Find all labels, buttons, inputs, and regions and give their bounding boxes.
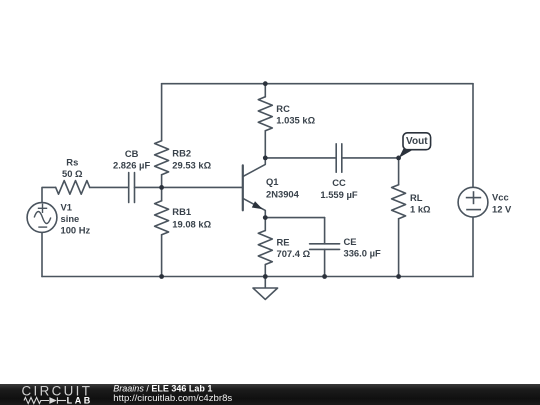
svg-text:2N3904: 2N3904: [266, 188, 300, 199]
svg-text:CB: CB: [125, 148, 139, 159]
svg-text:707.4 Ω: 707.4 Ω: [277, 248, 311, 259]
svg-text:19.08 kΩ: 19.08 kΩ: [172, 218, 211, 229]
svg-text:336.0 µF: 336.0 µF: [344, 248, 381, 259]
svg-text:50 Ω: 50 Ω: [62, 168, 83, 179]
svg-text:2.826 µF: 2.826 µF: [113, 159, 150, 170]
svg-text:1.035 kΩ: 1.035 kΩ: [276, 115, 315, 126]
svg-text:1.559 µF: 1.559 µF: [320, 189, 357, 200]
svg-text:http://circuitlab.com/c4zbr8s: http://circuitlab.com/c4zbr8s: [113, 393, 232, 404]
svg-text:RE: RE: [277, 237, 290, 248]
svg-text:Vout: Vout: [406, 136, 428, 147]
svg-text:29.53 kΩ: 29.53 kΩ: [172, 159, 211, 170]
svg-text:CC: CC: [332, 177, 346, 188]
svg-text:RL: RL: [410, 192, 423, 203]
svg-text:Rs: Rs: [66, 156, 78, 167]
svg-text:CE: CE: [344, 236, 357, 247]
svg-text:RC: RC: [276, 103, 290, 114]
svg-text:sine: sine: [61, 213, 80, 224]
svg-text:RB1: RB1: [172, 206, 191, 217]
svg-text:12 V: 12 V: [492, 203, 512, 214]
svg-text:LAB: LAB: [67, 396, 93, 405]
svg-text:Vcc: Vcc: [492, 192, 509, 203]
svg-text:100 Hz: 100 Hz: [61, 224, 91, 235]
svg-text:Q1: Q1: [266, 176, 279, 187]
svg-text:RB2: RB2: [172, 148, 191, 159]
svg-text:1 kΩ: 1 kΩ: [410, 204, 431, 215]
svg-text:V1: V1: [61, 202, 72, 213]
